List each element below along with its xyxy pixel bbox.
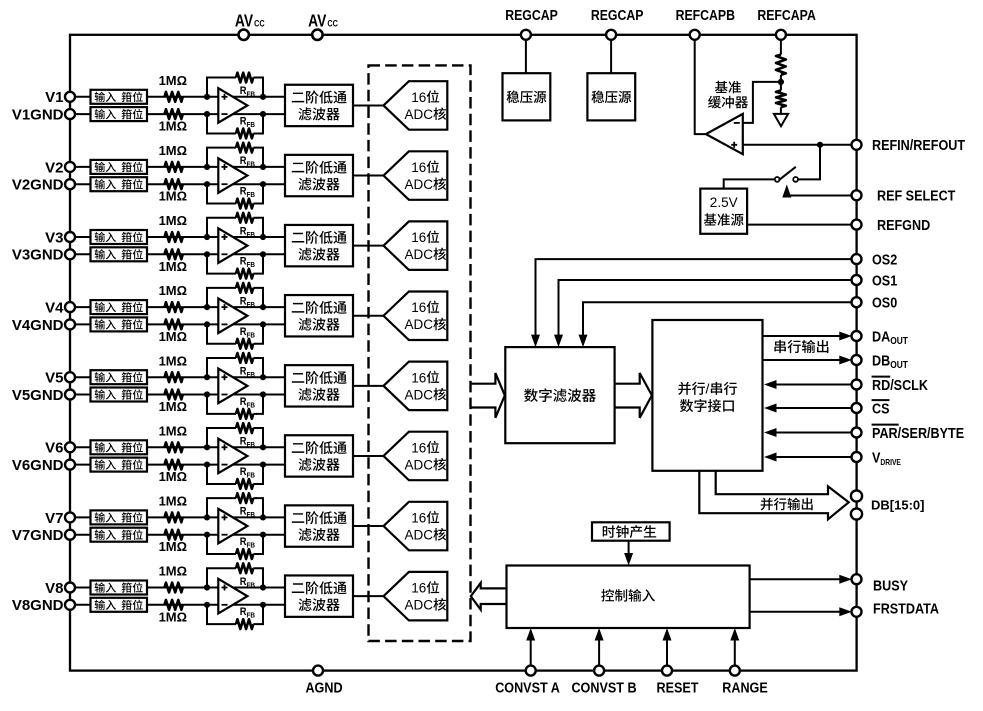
16-bit ADC core ch8 — [384, 572, 448, 621]
label 1MΩ bottom ch3 — [159, 259, 187, 274]
pin V5GND — [65, 390, 75, 400]
label RFB top ch8 — [240, 576, 255, 589]
feedback loop top ch8 — [207, 568, 236, 587]
node ch5 out+ — [260, 374, 266, 380]
svg-text:FB: FB — [247, 161, 256, 169]
clock generation block — [592, 522, 670, 540]
wire REGCAP2 to regulator — [610, 35, 612, 73]
wire BUSY — [750, 578, 840, 580]
wire V2GND input row — [70, 183, 218, 185]
svg-text:REGCAP: REGCAP — [505, 7, 558, 23]
label RFB top ch1 — [240, 85, 255, 98]
label 1MΩ top ch3 — [159, 213, 187, 228]
node ch3 out+ — [260, 234, 266, 240]
node ch4 +in — [204, 304, 210, 310]
svg-text:CONVST A: CONVST A — [495, 678, 560, 695]
resistor 1MΩ V4 — [165, 302, 183, 312]
digital filter block — [505, 347, 614, 443]
pin DAOUT — [852, 331, 862, 341]
pin REGCAP 2 — [606, 30, 616, 40]
feedback loop bottom ch3 — [207, 254, 236, 273]
label RFB top ch2 — [240, 156, 255, 169]
pin BUSY — [852, 574, 862, 584]
svg-text:1MΩ: 1MΩ — [159, 609, 187, 624]
svg-text:1MΩ: 1MΩ — [159, 399, 187, 414]
node ch2 -in — [204, 181, 210, 187]
label RFB bottom ch2 — [240, 186, 255, 199]
svg-text:1MΩ: 1MΩ — [159, 469, 187, 484]
REF SELECT control arrow — [782, 185, 791, 198]
label RFB top ch3 — [240, 226, 255, 239]
label RFB bottom ch4 — [240, 326, 255, 339]
chip boundary — [70, 35, 857, 671]
wire V6GND input row — [70, 464, 218, 466]
second-order low-pass filter ch6 — [285, 435, 353, 476]
node ch7 +in — [204, 514, 210, 520]
2.5V reference block — [700, 189, 747, 234]
svg-text:V7GND: V7GND — [12, 527, 64, 544]
resistor 1MΩ V1 — [165, 92, 183, 102]
feedback loop top ch7 — [207, 498, 236, 517]
feedback loop bottom ch2 — [207, 184, 236, 203]
op-amp PGA ch3 — [218, 228, 247, 263]
16-bit ADC core ch5 — [384, 362, 448, 411]
label 1MΩ top ch2 — [159, 143, 187, 158]
svg-text:REFGND: REFGND — [877, 216, 930, 233]
label 1MΩ top ch6 — [159, 423, 187, 438]
label 1MΩ top ch8 — [159, 564, 187, 579]
svg-text:1MΩ: 1MΩ — [159, 259, 187, 274]
resistor 1MΩ V7GND — [165, 530, 183, 540]
wire REFCAPA top — [780, 35, 782, 55]
svg-text:V6GND: V6GND — [12, 457, 64, 474]
node ch5 -in — [204, 391, 210, 397]
pin V7 — [65, 512, 75, 522]
label RFB top ch6 — [240, 436, 255, 449]
pin AVCC 2 — [312, 30, 322, 40]
svg-text:AV: AV — [235, 11, 253, 31]
16-bit ADC core ch6 — [384, 432, 448, 481]
wire switch to reference box — [724, 179, 775, 188]
svg-text:OS2: OS2 — [872, 250, 897, 267]
wire V7 input row — [70, 516, 218, 518]
svg-text:V2: V2 — [45, 159, 63, 176]
svg-text:OS1: OS1 — [872, 271, 897, 288]
pin PAR/SER/BYTE — [852, 428, 862, 438]
wire RANGE to control block — [734, 641, 736, 666]
resistor 1MΩ V3GND — [165, 249, 183, 259]
node ch8 -in — [204, 602, 210, 608]
input clamp block V3 — [91, 230, 148, 244]
feedback loop bottom ch1 — [207, 114, 236, 133]
pin RESET — [662, 666, 672, 676]
op-amp PGA ch5 — [218, 369, 247, 404]
dashed ADC cores block boundary — [369, 65, 471, 641]
svg-text:RD/SCLK: RD/SCLK — [872, 376, 928, 393]
node ch8 +in — [204, 584, 210, 590]
wire resistor to ground — [780, 107, 782, 114]
wire REFCAPB to buffer tip — [695, 35, 706, 134]
ground symbol — [774, 114, 788, 126]
label 1MΩ top ch4 — [159, 283, 187, 298]
svg-text:REGCAP: REGCAP — [591, 7, 644, 23]
node ch5 out- — [260, 391, 266, 397]
svg-text:CONVST B: CONVST B — [571, 678, 636, 695]
svg-text:RANGE: RANGE — [722, 678, 767, 695]
wire REFIN node to switch — [798, 145, 820, 180]
svg-text:ADC: ADC — [405, 527, 434, 542]
wire V7GND input row — [70, 534, 218, 536]
resistor REFCAPA lower — [776, 90, 786, 107]
label RFB bottom ch8 — [240, 607, 255, 620]
node ch3 +in — [204, 234, 210, 240]
wire V5GND input row — [70, 394, 218, 396]
feedback loop bottom ch7 — [207, 535, 236, 554]
node ch2 +in — [204, 164, 210, 170]
svg-text:1MΩ: 1MΩ — [159, 539, 187, 554]
label 1MΩ bottom ch6 — [159, 469, 187, 484]
16-bit ADC core ch3 — [384, 221, 448, 270]
pin FRSTDATA — [852, 607, 862, 617]
control input block — [507, 566, 750, 629]
16-bit ADC core ch4 — [384, 292, 448, 341]
label 1MΩ top ch5 — [159, 353, 187, 368]
pin V4GND — [65, 319, 75, 329]
svg-text:FB: FB — [247, 542, 256, 550]
svg-text:V3: V3 — [45, 229, 63, 246]
svg-text:DA: DA — [872, 327, 890, 344]
switch contact left — [775, 177, 780, 182]
pin V4 — [65, 302, 75, 312]
pin DB[15:0] lower — [851, 508, 862, 519]
svg-text:REFCAPA: REFCAPA — [757, 7, 816, 23]
input clamp block V7 — [91, 510, 148, 524]
wire V3GND input row — [70, 253, 218, 255]
svg-text:2.5V: 2.5V — [710, 195, 738, 210]
wire through op-amp region ch1 — [218, 96, 263, 98]
resistor 1MΩ V6 — [165, 442, 183, 452]
label 1MΩ bottom ch1 — [159, 119, 187, 134]
svg-text:1MΩ: 1MΩ — [159, 213, 187, 228]
svg-text:1MΩ: 1MΩ — [159, 189, 187, 204]
feedback loop top ch2 — [207, 148, 236, 167]
resistor 1MΩ V5 — [165, 372, 183, 382]
input clamp block V6 — [91, 440, 148, 454]
wire V1 input row — [70, 96, 218, 98]
node ch8 out+ — [260, 584, 266, 590]
16-bit ADC core ch7 — [384, 502, 448, 551]
op-amp PGA ch6 — [218, 439, 247, 474]
svg-text:1MΩ: 1MΩ — [159, 119, 187, 134]
pin V3 — [65, 232, 75, 242]
wire CONVST B to control block — [598, 641, 600, 666]
node ch3 out- — [260, 251, 266, 257]
wire filter to ADC ch8 — [353, 595, 384, 597]
feedback loop top ch1 — [207, 78, 236, 97]
label RFB top ch7 — [240, 506, 255, 519]
wire through op-amp region ch4 — [218, 306, 263, 308]
svg-text:ADC: ADC — [405, 457, 434, 472]
second-order low-pass filter ch3 — [285, 225, 353, 266]
input clamp block V5GND — [91, 388, 148, 402]
pin CS — [852, 403, 862, 413]
wire V8 input row — [70, 587, 218, 589]
wire between divider resistors — [780, 75, 782, 91]
node ch1 +in — [204, 94, 210, 100]
svg-text:FB: FB — [247, 442, 256, 450]
wire filter to ADC ch1 — [353, 104, 384, 106]
pin V8GND — [65, 600, 75, 610]
wire FRSTDATA — [750, 611, 840, 613]
svg-text:REFIN/REFOUT: REFIN/REFOUT — [872, 136, 966, 153]
svg-text:FB: FB — [247, 91, 256, 99]
feedback loop top ch3 — [207, 218, 236, 237]
label 1MΩ top ch1 — [159, 73, 187, 88]
svg-text:FB: FB — [247, 512, 256, 520]
svg-text:V7: V7 — [45, 510, 63, 527]
node ch6 out+ — [260, 444, 266, 450]
node ch2 out- — [260, 181, 266, 187]
node ch4 out+ — [260, 304, 266, 310]
svg-text:OS0: OS0 — [872, 293, 897, 310]
pin V2 — [65, 162, 75, 172]
wire V6 input row — [70, 446, 218, 448]
input clamp block V8GND — [91, 598, 148, 612]
svg-text:ADC: ADC — [405, 387, 434, 402]
resistor 1MΩ V4GND — [165, 320, 183, 330]
svg-text:CS: CS — [872, 399, 889, 416]
resistor 1MΩ V8 — [165, 583, 183, 593]
svg-text:CC: CC — [254, 18, 265, 29]
input clamp block V1GND — [91, 107, 148, 121]
pin VDRIVE — [852, 452, 862, 462]
svg-text:BUSY: BUSY — [873, 576, 909, 593]
resistor 1MΩ V6GND — [165, 460, 183, 470]
label 1MΩ bottom ch4 — [159, 329, 187, 344]
wire through op-amp region ch5 — [218, 376, 263, 378]
pin OS0 — [852, 297, 862, 307]
label 1MΩ top ch7 — [159, 494, 187, 509]
svg-text:REF SELECT: REF SELECT — [877, 187, 956, 204]
second-order low-pass filter ch4 — [285, 295, 353, 336]
svg-text:1MΩ: 1MΩ — [159, 564, 187, 579]
svg-text:16: 16 — [411, 581, 426, 596]
pin REFGND — [852, 220, 862, 230]
resistor 1MΩ V1GND — [165, 109, 183, 119]
svg-text:1MΩ: 1MΩ — [159, 329, 187, 344]
pin V1 — [65, 92, 75, 102]
input clamp block V2GND — [91, 177, 148, 191]
second-order low-pass filter ch8 — [285, 575, 353, 616]
node ch6 -in — [204, 462, 210, 468]
feedback loop bottom ch8 — [207, 605, 236, 624]
label RFB bottom ch7 — [240, 536, 255, 549]
svg-text:ADC: ADC — [405, 247, 434, 262]
wire DAOUT serial output — [763, 335, 841, 337]
op-amp reference buffer — [706, 114, 743, 154]
svg-text:FB: FB — [247, 472, 256, 480]
label RFB bottom ch1 — [240, 116, 255, 129]
svg-text:16: 16 — [411, 370, 426, 385]
svg-text:1MΩ: 1MΩ — [159, 73, 187, 88]
input clamp block V8 — [91, 581, 148, 595]
svg-text:OUT: OUT — [890, 359, 908, 370]
pin DBOUT — [852, 355, 862, 365]
pin V1GND — [65, 109, 75, 119]
wire DBOUT serial output — [763, 359, 841, 361]
label 1MΩ bottom ch5 — [159, 399, 187, 414]
svg-text:FB: FB — [247, 122, 256, 130]
wire CONVST A to control block — [530, 641, 532, 666]
node ch1 out- — [260, 111, 266, 117]
svg-text:16: 16 — [411, 510, 426, 525]
svg-text:REFCAPB: REFCAPB — [676, 7, 735, 23]
wire V2 input row — [70, 166, 218, 168]
node REFIN junction — [817, 142, 823, 148]
pin DB[15:0] upper — [851, 490, 862, 501]
wire V1GND input row — [70, 113, 218, 115]
svg-text:/: / — [706, 381, 710, 397]
resistor 1MΩ V8GND — [165, 600, 183, 610]
svg-text:1MΩ: 1MΩ — [159, 353, 187, 368]
svg-text:PAR/SER/BYTE: PAR/SER/BYTE — [872, 424, 964, 441]
bus arrow digital filter to interface — [615, 373, 652, 418]
label 1MΩ bottom ch8 — [159, 609, 187, 624]
svg-text:DB[15:0]: DB[15:0] — [871, 498, 924, 513]
pin OS1 — [852, 275, 862, 285]
pin V5 — [65, 372, 75, 382]
svg-text:V3GND: V3GND — [12, 247, 64, 264]
pin CONVST B — [594, 666, 604, 676]
wire REFGND — [747, 224, 856, 226]
wire buffer -in — [743, 82, 781, 123]
svg-text:FRSTDATA: FRSTDATA — [873, 599, 939, 616]
svg-text:ADC: ADC — [405, 598, 434, 613]
svg-text:CC: CC — [327, 18, 338, 29]
node ch5 +in — [204, 374, 210, 380]
bus arrow ADC cores to digital filter — [470, 373, 505, 418]
wire through op-amp region ch3 — [218, 236, 263, 238]
svg-text:1MΩ: 1MΩ — [159, 143, 187, 158]
resistor 1MΩ V2GND — [165, 179, 183, 189]
label RFB top ch4 — [240, 296, 255, 309]
svg-text:ADC: ADC — [405, 317, 434, 332]
pin RANGE — [730, 666, 740, 676]
node ch6 out- — [260, 462, 266, 468]
feedback loop top ch5 — [207, 358, 236, 377]
wire V4GND input row — [70, 323, 218, 325]
input clamp block V4GND — [91, 317, 148, 331]
svg-text:V4: V4 — [45, 300, 64, 317]
wire filter to ADC ch6 — [353, 455, 384, 457]
node ch7 -in — [204, 532, 210, 538]
input clamp block V1 — [91, 90, 148, 104]
svg-text:V2GND: V2GND — [12, 177, 64, 194]
node ch3 -in — [204, 251, 210, 257]
pin CONVST A — [526, 666, 536, 676]
svg-text:V8: V8 — [45, 580, 63, 597]
wire through op-amp region ch6 — [218, 446, 263, 448]
node ch7 out+ — [260, 514, 266, 520]
op-amp PGA ch7 — [218, 509, 247, 544]
resistor 1MΩ V2 — [165, 162, 183, 172]
wire filter to ADC ch3 — [353, 245, 384, 247]
svg-text:AGND: AGND — [305, 678, 342, 695]
wire REGCAP1 to regulator — [525, 35, 527, 73]
op-amp PGA ch8 — [218, 579, 247, 614]
svg-text:16: 16 — [411, 440, 426, 455]
node ch6 +in — [204, 444, 210, 450]
wire through op-amp region ch2 — [218, 166, 263, 168]
label 串行输出 — [774, 340, 828, 353]
svg-text:V8GND: V8GND — [12, 597, 64, 614]
svg-text:DRIVE: DRIVE — [880, 457, 901, 467]
label 1MΩ bottom ch7 — [159, 539, 187, 554]
pin REFIN/REFOUT — [852, 140, 862, 150]
wire buffer +in to REFIN — [743, 144, 857, 146]
svg-text:DB: DB — [872, 351, 890, 368]
input clamp block V4 — [91, 300, 148, 314]
svg-text:OUT: OUT — [890, 335, 908, 346]
wire OS2 to digital filter — [536, 259, 857, 335]
wire through op-amp region ch8 — [218, 587, 263, 589]
svg-text:RESET: RESET — [657, 678, 699, 695]
second-order low-pass filter ch1 — [285, 85, 353, 126]
svg-text:V5: V5 — [45, 370, 63, 387]
pin REGCAP 1 — [521, 30, 531, 40]
pin V7GND — [65, 530, 75, 540]
label RFB bottom ch5 — [240, 396, 255, 409]
regulator block 2 (稳压源) — [587, 73, 635, 120]
pin AVCC 1 — [239, 30, 249, 40]
svg-text:16: 16 — [411, 90, 426, 105]
svg-text:16: 16 — [411, 300, 426, 315]
svg-text:16: 16 — [411, 230, 426, 245]
wire OS1 to digital filter — [559, 280, 857, 336]
node ch4 out- — [260, 321, 266, 327]
feedback loop bottom ch4 — [207, 324, 236, 343]
svg-text:FB: FB — [247, 262, 256, 270]
wire RESET to control block — [666, 641, 668, 666]
pin V6 — [65, 442, 75, 452]
wire V5 input row — [70, 376, 218, 378]
wire clock to control — [628, 541, 630, 554]
resistor 1MΩ V5GND — [165, 390, 183, 400]
node ch1 out+ — [260, 94, 266, 100]
svg-text:FB: FB — [247, 332, 256, 340]
pin REFCAPA — [776, 30, 786, 40]
feedback loop top ch4 — [207, 288, 236, 307]
wire through op-amp region ch7 — [218, 516, 263, 518]
wire filter to ADC ch7 — [353, 525, 384, 527]
svg-text:1MΩ: 1MΩ — [159, 423, 187, 438]
pin OS2 — [852, 254, 862, 264]
node ch2 out+ — [260, 164, 266, 170]
input clamp block V3GND — [91, 247, 148, 261]
wire PAR/SER/BYTE to interface — [776, 432, 852, 434]
svg-text:FB: FB — [247, 231, 256, 239]
node divider tap — [778, 79, 784, 85]
resistor 1MΩ V3 — [165, 232, 183, 242]
op-amp PGA ch4 — [218, 298, 247, 333]
wire filter to ADC ch5 — [353, 385, 384, 387]
feedback loop bottom ch6 — [207, 465, 236, 484]
second-order low-pass filter ch7 — [285, 505, 353, 546]
wire filter to ADC ch2 — [353, 175, 384, 177]
svg-text:V6: V6 — [45, 440, 63, 457]
bus arrow control to ADC cores — [471, 583, 507, 610]
label RFB bottom ch6 — [240, 466, 255, 479]
